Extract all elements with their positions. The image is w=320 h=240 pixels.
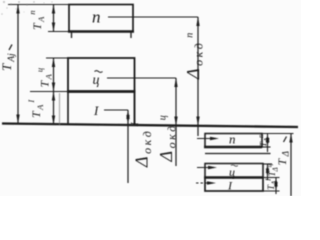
svg-text:ТАn: ТАn bbox=[27, 10, 46, 30]
prime tick of T_D' bbox=[284, 137, 287, 143]
extension of shch-box top bbox=[263, 163, 272, 165]
svg-text:n: n bbox=[92, 8, 101, 27]
dimension T_A^I line bbox=[53, 92, 55, 125]
svg-text:ТАI: ТАI bbox=[26, 99, 45, 118]
box n (upper-left) bbox=[69, 5, 133, 32]
extension line divider bbox=[30, 91, 68, 93]
dimension Delta_okd^shch line bbox=[175, 78, 177, 166]
extension line mid-box top bbox=[46, 57, 68, 59]
inner arrow to n bbox=[197, 138, 216, 140]
inner arrow to shch bbox=[197, 167, 214, 169]
box n (lower-right) bbox=[205, 134, 262, 148]
dimension Delta_okd^I line bbox=[127, 110, 129, 183]
dimension T_A^shch line bbox=[53, 58, 55, 92]
cell I right side bbox=[134, 92, 136, 125]
thick divider shch/I bbox=[204, 176, 263, 179]
box I (lower-right) bbox=[205, 178, 263, 192]
extension of n-box top to the right bbox=[262, 133, 294, 135]
svg-text:n: n bbox=[229, 132, 236, 147]
leader from I bbox=[104, 109, 128, 111]
extension of n-box bottom bbox=[262, 146, 271, 148]
dimension T_A^n line bbox=[53, 5, 55, 32]
dimension T_A' line bbox=[17, 5, 19, 124]
svg-text:Δокдn: Δокдn bbox=[183, 33, 206, 80]
svg-text:ΔокдI: ΔокдI bbox=[130, 122, 154, 168]
extension of divider bbox=[263, 177, 280, 179]
box n thick bottom border bbox=[68, 30, 134, 33]
dimension T_D^shch line bbox=[267, 164, 269, 180]
leader from n bbox=[108, 16, 198, 18]
svg-text:ТΔn: ТΔn bbox=[257, 134, 271, 147]
svg-text:ТАц: ТАц bbox=[35, 68, 54, 88]
ghost scan line left of cell I bbox=[59, 93, 61, 125]
box shch (middle-left) bbox=[68, 58, 135, 92]
dimension T_D^I line bbox=[275, 178, 277, 195]
extension of I-box bottom bbox=[263, 190, 280, 192]
dashed arrow to I bbox=[196, 182, 213, 184]
svg-text:ц: ц bbox=[93, 73, 100, 88]
lower-right n box thick bottom bbox=[204, 146, 262, 149]
leader from shch bbox=[107, 77, 176, 79]
svg-text:ТАj: ТАj bbox=[0, 53, 17, 71]
cell I left side bbox=[67, 92, 69, 125]
svg-text:I: I bbox=[93, 103, 99, 118]
svg-text:Δокдц: Δокдц bbox=[156, 115, 179, 162]
tilde over shch bbox=[95, 71, 103, 73]
svg-text:ТΔ: ТΔ bbox=[275, 151, 291, 165]
thick divider below box shch bbox=[67, 90, 136, 93]
stub left under box n bbox=[71, 33, 73, 39]
stub right under box n bbox=[130, 33, 132, 39]
baseline (main horizontal axis) bbox=[2, 124, 298, 128]
dimension T_D^n line bbox=[267, 134, 269, 153]
box shch (lower-right) bbox=[205, 164, 263, 178]
prime tick of T_A' bbox=[9, 45, 12, 51]
line under n box bbox=[205, 153, 271, 155]
dimension T_D' line bbox=[290, 134, 292, 197]
tilde over lower shch bbox=[231, 165, 238, 167]
dimension Delta_okd^n line bbox=[197, 17, 199, 136]
extension line below box n bbox=[48, 31, 69, 33]
svg-text:ц: ц bbox=[229, 165, 235, 179]
extension line top bbox=[8, 4, 69, 6]
